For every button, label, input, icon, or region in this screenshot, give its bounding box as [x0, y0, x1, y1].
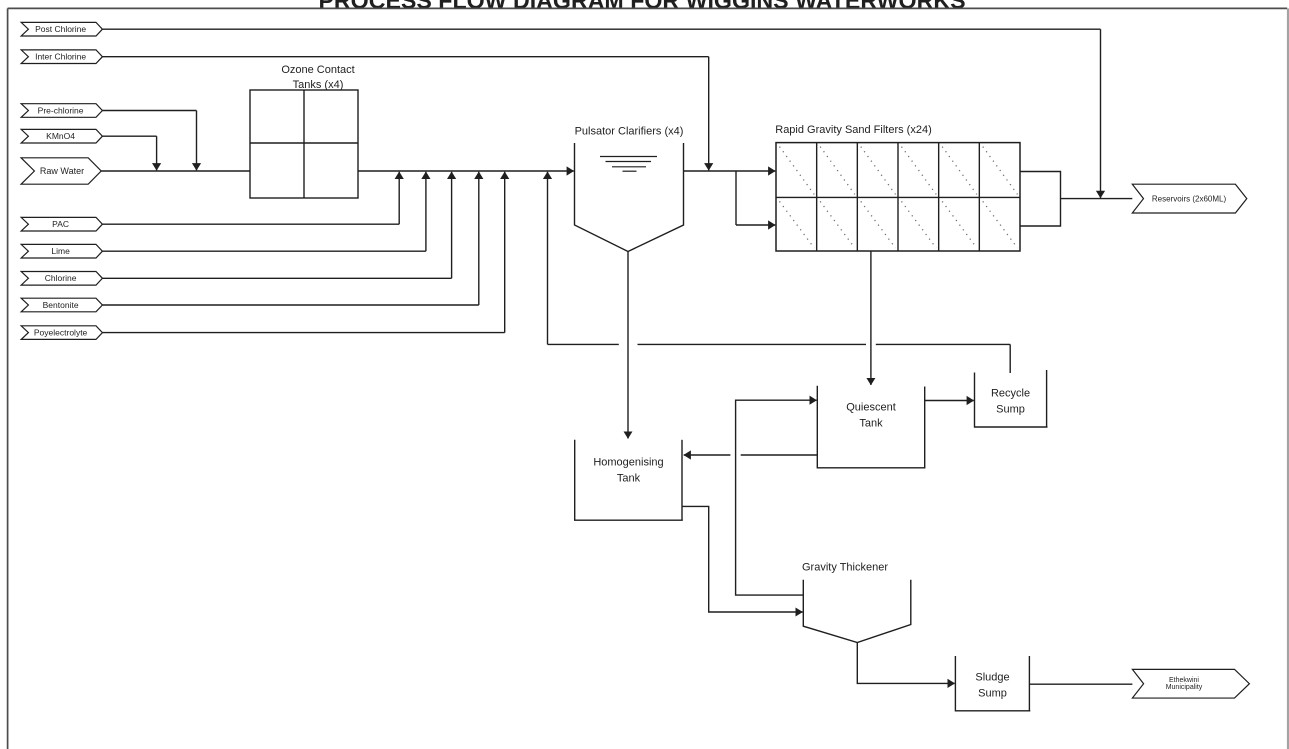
- wire recycle horizontal (with crossing gaps): [548, 343, 619, 345]
- svg-text:Homogenising: Homogenising: [593, 457, 663, 469]
- flag Inter Chlorine: [21, 50, 102, 64]
- wire sludge sump to ethekwini municipality: [1029, 683, 1132, 685]
- flag Post Chlorine: [21, 22, 102, 36]
- wire raw water to ozone contact tanks: [101, 170, 250, 172]
- wire branch down to bottom row: [735, 171, 737, 225]
- svg-text:PAC: PAC: [52, 219, 69, 229]
- wire inter chlorine drop to pulsator outlet: [708, 57, 710, 171]
- border frame right: [1287, 8, 1289, 749]
- flag Lime: [21, 244, 102, 258]
- quiescent tank: [817, 386, 925, 468]
- svg-text:Pre-chlorine: Pre-chlorine: [38, 105, 84, 115]
- wire KMnO4 horizontal: [102, 135, 156, 137]
- flag Poyelectrolyte: [21, 326, 102, 340]
- wire branch into sand filters bottom row: [736, 224, 775, 226]
- svg-text:Quiescent: Quiescent: [846, 402, 896, 414]
- wire post chlorine drop to filtered water line: [1100, 29, 1102, 198]
- wire chlorine feed riser to main line: [451, 172, 453, 278]
- wire thickener underflow to sludge sump: [857, 643, 900, 684]
- homogenising tank: [575, 440, 683, 520]
- svg-text:PROCESS FLOW DIAGRAM FOR WIGGI: PROCESS FLOW DIAGRAM FOR WIGGINS WATERWO…: [318, 0, 965, 14]
- ozone contact tanks (x4): [250, 64, 358, 198]
- wire post chlorine horizontal: [102, 28, 1100, 30]
- svg-text:Inter Chlorine: Inter Chlorine: [35, 52, 86, 62]
- gravity thickener vessel: [802, 562, 911, 643]
- flag Pre-chlorine: [21, 104, 102, 118]
- svg-text:Recycle: Recycle: [991, 388, 1030, 400]
- svg-text:Poyelectrolyte: Poyelectrolyte: [34, 327, 88, 337]
- svg-text:Rapid Gravity Sand Filters (x: Rapid Gravity Sand Filters (x24): [775, 124, 932, 136]
- border frame left: [7, 8, 9, 749]
- wire pre-chlorine horizontal: [102, 110, 196, 112]
- svg-text:Ozone Contact: Ozone Contact: [281, 64, 354, 76]
- sludge sump: [955, 656, 1030, 711]
- wire polyelectrolyte feed riser to main line: [504, 172, 506, 333]
- wire pulsator sludge drain to homogenising tank: [627, 252, 629, 439]
- filter outlet box: [1020, 172, 1061, 227]
- svg-text:Post Chlorine: Post Chlorine: [35, 24, 86, 34]
- wire filtered water to reservoirs: [1061, 198, 1133, 200]
- flag Reservoirs (2x60ML): [1132, 184, 1247, 213]
- svg-text:Tank: Tank: [617, 473, 641, 485]
- wire quiescent tank to recycle sump: [925, 400, 974, 402]
- flag Ethekwini Municipality: [1132, 669, 1249, 698]
- wire bentonite feed horizontal: [102, 304, 478, 306]
- flag Raw Water: [21, 158, 101, 184]
- wire bentonite feed riser to main line: [478, 172, 480, 305]
- svg-text:Ethekwini: Ethekwini: [1169, 677, 1199, 684]
- wire ozone tanks to pulsator clarifiers: [358, 170, 574, 172]
- wire PAC feed riser to main line: [398, 172, 400, 224]
- svg-text:KMnO4: KMnO4: [46, 131, 75, 141]
- flag Bentonite: [21, 298, 102, 312]
- wire recycle return riser into main line: [547, 172, 549, 345]
- wire quiescent tank to homogenising tank (with crossing gap): [741, 454, 818, 456]
- svg-text:Raw Water: Raw Water: [40, 166, 84, 176]
- wire filter backwash drain to quiescent tank: [870, 251, 872, 385]
- svg-text:Sludge: Sludge: [975, 672, 1009, 684]
- svg-text:Tank: Tank: [859, 418, 883, 430]
- wire thickener supernatant to quiescent tank: [736, 400, 804, 595]
- svg-text:Lime: Lime: [51, 246, 70, 256]
- wire polyelectrolyte feed horizontal: [102, 332, 504, 334]
- wire KMnO4 drop to raw water line: [156, 136, 158, 170]
- flag Chlorine: [21, 272, 102, 286]
- wire PAC feed horizontal: [102, 223, 399, 225]
- wire inter chlorine horizontal: [102, 56, 708, 58]
- wire drop into recycle sump: [1009, 344, 1011, 373]
- wire lime feed horizontal: [102, 250, 426, 252]
- water surface symbol: [600, 157, 657, 172]
- svg-text:Gravity Thickener: Gravity Thickener: [802, 562, 888, 574]
- svg-text:Pulsator Clarifiers (x4): Pulsator Clarifiers (x4): [575, 126, 684, 138]
- wire homogenising tank outlet to gravity thickener: [682, 506, 770, 612]
- svg-text:Chlorine: Chlorine: [45, 273, 77, 283]
- wire pre-chlorine drop to raw water line: [196, 111, 198, 171]
- svg-text:Sump: Sump: [978, 688, 1007, 700]
- wire lime feed riser to main line: [425, 172, 427, 251]
- wire pulsator outlet to sand filters top row: [684, 170, 776, 172]
- flag KMnO4: [21, 129, 102, 143]
- svg-text:Municipality: Municipality: [1166, 684, 1203, 691]
- pulsator clarifiers (x4) vessel: [575, 126, 684, 252]
- border frame top: [8, 7, 1288, 9]
- recycle sump: [975, 370, 1048, 427]
- svg-text:Sump: Sump: [996, 404, 1025, 416]
- svg-text:Tanks (x4): Tanks (x4): [293, 79, 344, 91]
- flag PAC: [21, 217, 102, 231]
- svg-text:Bentonite: Bentonite: [43, 300, 79, 310]
- svg-text:Reservoirs (2x60ML): Reservoirs (2x60ML): [1152, 194, 1227, 203]
- wire chlorine feed horizontal: [102, 277, 451, 279]
- rapid gravity sand filters (x24): [775, 124, 1020, 251]
